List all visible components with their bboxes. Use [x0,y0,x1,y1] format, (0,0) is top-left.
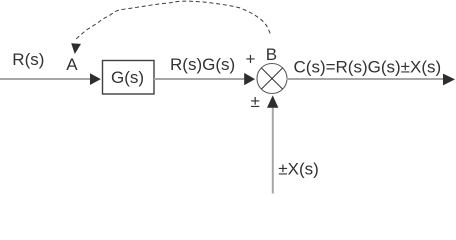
wire input line to node A [0,78,91,80]
wire disturbance input vertical [272,107,274,194]
svg-text:G(s): G(s) [111,68,144,87]
svg-text:R(s): R(s) [12,50,44,69]
svg-text:±: ± [251,92,260,111]
arrowhead up into summing junction [267,95,278,107]
arrowhead into summing junction [244,73,255,85]
arrowhead output [443,74,455,86]
svg-text:R(s)G(s): R(s)G(s) [170,55,235,74]
svg-text:C(s)=R(s)G(s)±X(s): C(s)=R(s)G(s)±X(s) [294,57,442,76]
summing junction B circle [257,64,287,94]
summing junction X cross line 1 [262,68,283,89]
svg-text:A: A [66,55,78,74]
arrowhead of dashed curve at node A [71,43,81,54]
arrowhead into block G(s) [90,73,101,85]
dashed feedback curve from B to A [76,1,270,39]
summing junction X cross line 2 [262,68,283,89]
svg-text:±X(s): ±X(s) [278,160,319,179]
block G1 G(s) [103,61,155,95]
wire block to summing junction [154,78,245,80]
svg-text:+: + [246,50,256,69]
wire output from summing junction [287,78,445,80]
svg-text:B: B [266,45,277,64]
